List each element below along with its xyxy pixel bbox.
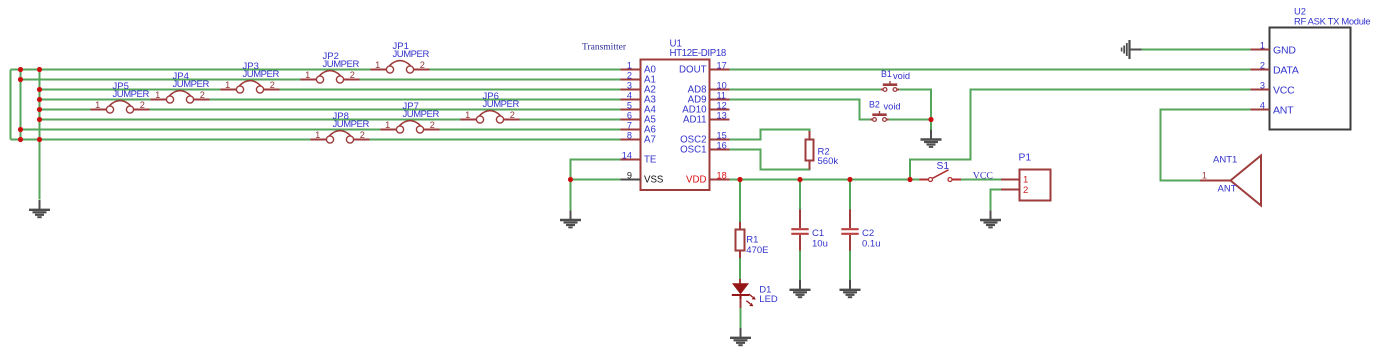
svg-text:VDD: VDD — [686, 175, 706, 186]
svg-text:JUMPER: JUMPER — [403, 109, 440, 120]
svg-text:LED: LED — [759, 294, 778, 305]
svg-text:VSS: VSS — [644, 175, 664, 186]
connector P1 — [1019, 153, 1051, 201]
jumper JP7 — [381, 101, 440, 133]
svg-text:AD11: AD11 — [683, 115, 707, 126]
wire VDD to U2 VCC — [910, 90, 1251, 180]
wire S1 to P1 — [961, 179, 1001, 181]
svg-text:1: 1 — [315, 130, 320, 140]
junction — [797, 177, 802, 182]
wire bus row 8 left segment — [11, 139, 311, 141]
svg-text:5: 5 — [627, 101, 632, 111]
wire U2 GND — [1141, 49, 1251, 51]
wire R1 top lead — [739, 222, 741, 230]
junction — [928, 117, 933, 122]
wire AD9 to B2 — [730, 100, 871, 120]
wire P1 pin1 lead — [1001, 179, 1020, 181]
U1 pin 10 AD8 — [688, 81, 730, 96]
wire VSS down — [570, 180, 572, 211]
U1 pin 3 A2 — [621, 81, 656, 96]
svg-text:4: 4 — [627, 91, 632, 101]
wire U2 ANT to antenna — [1161, 110, 1251, 181]
svg-text:VCC: VCC — [973, 171, 993, 182]
U1 pin 6 A5 — [621, 111, 656, 126]
U1 pin 4 A3 — [621, 91, 656, 106]
pushbutton B1 — [881, 69, 910, 91]
U1 pin 13 AD11 — [683, 111, 730, 126]
wire bus row 5 left segment — [40, 109, 91, 111]
wire bus row 3 left segment — [40, 89, 221, 91]
svg-text:1: 1 — [305, 70, 310, 80]
svg-text:17: 17 — [717, 61, 727, 71]
jumper JP6 — [461, 91, 520, 123]
svg-text:18: 18 — [717, 171, 727, 181]
antenna ANT1 — [1202, 154, 1261, 205]
resistor R2 — [806, 140, 839, 167]
svg-text:1: 1 — [1202, 171, 1207, 181]
svg-text:2: 2 — [420, 60, 425, 70]
U2 pin 4 ANT — [1251, 101, 1295, 117]
svg-text:0.1u: 0.1u — [862, 238, 881, 249]
svg-text:ANT: ANT — [1218, 183, 1237, 194]
U1 pin 5 A4 — [621, 101, 657, 116]
wire left bus vertical 2 — [20, 70, 22, 140]
svg-text:DOUT: DOUT — [679, 65, 707, 76]
ground earth (U2 GND) — [1130, 49, 1142, 51]
svg-text:1: 1 — [155, 90, 160, 100]
ground (P1) — [990, 210, 992, 220]
wire VSS row — [571, 179, 621, 181]
wire D1 bottom lead — [740, 299, 742, 308]
U1 pin 16 OSC1 — [680, 141, 729, 156]
junction — [37, 87, 42, 92]
jumper JP8 — [311, 111, 370, 143]
wire B2 to ground column — [889, 119, 931, 121]
ground (B1/B2) — [930, 130, 932, 140]
ground (VSS) — [570, 210, 572, 220]
svg-text:VCC: VCC — [1273, 84, 1295, 96]
junction — [18, 67, 23, 72]
wire AD8 to B1 — [730, 89, 881, 91]
wire bus row 4 left segment — [40, 99, 151, 101]
junction — [18, 77, 23, 82]
module U2 RF ASK TX body — [1270, 28, 1351, 130]
wire bus row 7 right segment — [439, 129, 621, 131]
op-amp U1 HT12E-DIP18 body — [641, 60, 710, 191]
wire bus row 2 left segment — [21, 79, 301, 81]
junction — [37, 97, 42, 102]
jumper JP4 — [151, 71, 210, 103]
pushbutton B2 — [869, 99, 901, 121]
U1 pin 11 AD9 — [688, 91, 730, 106]
svg-text:1: 1 — [225, 80, 230, 90]
wire left bus vertical 1 — [10, 70, 12, 140]
U1 pin 12 AD10 — [682, 101, 729, 116]
svg-text:JUMPER: JUMPER — [113, 89, 150, 100]
wire P1 pin2 lead — [1001, 189, 1020, 191]
svg-text:2: 2 — [430, 120, 435, 130]
svg-text:560k: 560k — [818, 156, 839, 167]
wire D1 top lead — [739, 279, 741, 284]
capacitor C2 — [841, 210, 880, 251]
wire VDD to R1 — [739, 180, 741, 223]
svg-text:10: 10 — [717, 81, 727, 91]
wire C2 to ground — [849, 251, 851, 282]
svg-text:11: 11 — [717, 91, 727, 101]
svg-text:ANT: ANT — [1273, 104, 1294, 116]
ground (bus) — [39, 200, 41, 210]
junction — [568, 177, 573, 182]
U1 pin 15 OSC2 — [680, 131, 729, 146]
svg-text:1: 1 — [375, 60, 380, 70]
U1 pin 14 TE — [621, 151, 657, 166]
svg-text:1: 1 — [1260, 41, 1265, 51]
wire R1 bottom lead — [739, 251, 741, 259]
jumper JP3 — [221, 61, 280, 93]
svg-text:4: 4 — [1260, 101, 1265, 111]
jumper JP5 — [91, 81, 150, 113]
svg-text:1: 1 — [1023, 174, 1028, 185]
wire D1 to ground — [740, 308, 742, 328]
svg-text:TE: TE — [644, 155, 657, 166]
wire ground bus vertical — [39, 70, 41, 200]
junction — [907, 177, 912, 182]
jumper JP1 — [371, 41, 430, 73]
svg-text:16: 16 — [717, 141, 727, 151]
svg-text:DATA: DATA — [1273, 64, 1299, 76]
wire C1 to ground — [799, 251, 801, 282]
wire bus row 8 right segment — [369, 139, 621, 141]
wire bus row 2 right segment — [359, 79, 621, 81]
junction — [37, 137, 42, 142]
svg-text:A7: A7 — [644, 135, 656, 146]
svg-text:14: 14 — [622, 151, 632, 161]
wire R2 bottom lead — [809, 161, 811, 170]
svg-text:2: 2 — [1260, 61, 1265, 71]
wire R1 to D1 — [739, 258, 741, 279]
svg-text:3: 3 — [627, 81, 632, 91]
U1 pin 18 VDD — [686, 171, 729, 186]
wire TE to VSS column — [571, 160, 621, 180]
svg-text:void: void — [884, 101, 901, 111]
junction — [18, 127, 23, 132]
svg-text:JUMPER: JUMPER — [173, 79, 210, 90]
wire R2 top lead — [809, 131, 811, 140]
svg-text:13: 13 — [717, 111, 727, 121]
wire B junction down — [930, 120, 932, 131]
ground (C1) — [799, 280, 801, 290]
junction — [847, 177, 852, 182]
svg-text:void: void — [893, 71, 910, 81]
svg-text:1: 1 — [465, 110, 470, 120]
ground (D1) — [740, 328, 742, 338]
wire bus row 6 left segment — [40, 119, 461, 121]
ground (C2) — [849, 280, 851, 290]
svg-text:HT12E-DIP18: HT12E-DIP18 — [670, 48, 726, 59]
junction — [737, 177, 742, 182]
U1 pin 2 A1 — [621, 71, 656, 86]
svg-text:JUMPER: JUMPER — [323, 59, 360, 70]
svg-text:OSC1: OSC1 — [680, 145, 706, 156]
svg-text:3: 3 — [1260, 81, 1265, 91]
wire OSC1 to R2 bottom — [730, 150, 810, 170]
svg-text:1: 1 — [627, 61, 632, 71]
wire bus row 4 right segment — [209, 99, 621, 101]
svg-text:12: 12 — [717, 101, 727, 111]
svg-text:JUMPER: JUMPER — [243, 69, 280, 80]
svg-text:JUMPER: JUMPER — [393, 49, 430, 60]
junction — [37, 67, 42, 72]
svg-text:6: 6 — [627, 111, 632, 121]
svg-text:10u: 10u — [812, 238, 828, 249]
svg-text:JUMPER: JUMPER — [483, 99, 520, 110]
junction — [37, 117, 42, 122]
wire bus row 6 right segment — [519, 119, 621, 121]
wire bus row 1 left segment — [11, 69, 371, 71]
U1 pin 7 A6 — [621, 121, 656, 136]
svg-text:470E: 470E — [746, 245, 768, 256]
wire B1 to ground column — [899, 90, 931, 120]
svg-text:2: 2 — [270, 80, 275, 90]
wire VDD to C1 — [799, 180, 801, 210]
wire bus row 5 right segment — [149, 109, 621, 111]
U1 pin 8 A7 — [621, 131, 656, 146]
svg-text:2: 2 — [200, 90, 205, 100]
svg-text:Transmitter: Transmitter — [582, 43, 627, 53]
jumper JP2 — [301, 51, 360, 83]
wire DOUT to U2 DATA — [730, 69, 1251, 71]
capacitor C1 — [791, 210, 828, 251]
svg-text:1: 1 — [385, 120, 390, 130]
U1 pin 9 VSS — [621, 171, 664, 186]
svg-text:2: 2 — [140, 100, 145, 110]
wire bus row 7 left segment — [21, 129, 381, 131]
svg-text:7: 7 — [627, 121, 632, 131]
junction — [37, 107, 42, 112]
svg-text:8: 8 — [627, 131, 632, 141]
U2 pin 2 DATA — [1251, 61, 1299, 77]
svg-text:P1: P1 — [1019, 153, 1032, 164]
svg-text:B2: B2 — [869, 99, 880, 109]
svg-text:1: 1 — [95, 100, 100, 110]
wire bus row 1 right segment — [429, 69, 621, 71]
wire bus row 3 right segment — [279, 89, 621, 91]
LED D1 — [732, 284, 778, 307]
U2 pin 3 VCC — [1251, 81, 1296, 97]
svg-text:S1: S1 — [937, 161, 950, 172]
svg-text:2: 2 — [510, 110, 515, 120]
svg-text:2: 2 — [627, 71, 632, 81]
junction — [18, 137, 23, 142]
svg-text:2: 2 — [360, 130, 365, 140]
svg-text:2: 2 — [1023, 185, 1028, 196]
svg-text:RF ASK TX Module: RF ASK TX Module — [1294, 15, 1370, 26]
svg-text:2: 2 — [350, 70, 355, 80]
U1 pin 17 DOUT — [679, 61, 729, 76]
U2 pin 1 GND — [1251, 41, 1297, 57]
wire P1 pin2 to ground — [991, 190, 1002, 211]
svg-text:9: 9 — [627, 171, 632, 181]
switch S1 — [920, 161, 962, 182]
wire VDD to C2 — [849, 180, 851, 210]
resistor R1 — [736, 230, 769, 256]
svg-text:B1: B1 — [881, 69, 892, 79]
U1 pin 1 A0 — [621, 61, 657, 76]
svg-text:JUMPER: JUMPER — [333, 119, 370, 130]
wire ANT1 pin lead — [1200, 180, 1231, 182]
svg-text:15: 15 — [717, 131, 727, 141]
svg-text:ANT1: ANT1 — [1213, 154, 1237, 165]
svg-text:GND: GND — [1273, 44, 1296, 56]
wire VDD row — [730, 179, 920, 181]
wire OSC2 to R2 top — [730, 130, 810, 140]
